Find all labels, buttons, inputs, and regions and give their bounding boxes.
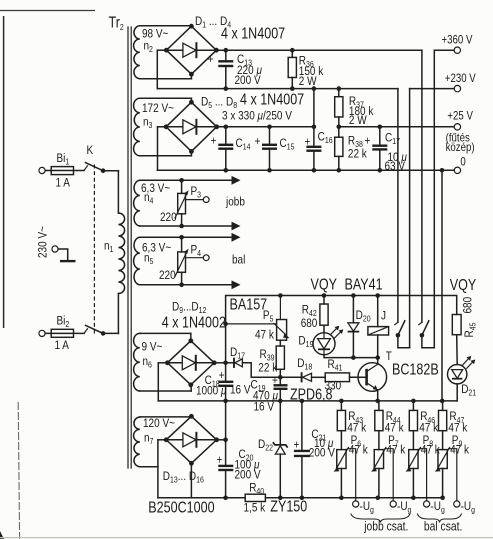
capacitor C14 bbox=[211, 127, 252, 171]
svg-text:R42: R42 bbox=[302, 304, 317, 319]
+230V terminal bbox=[410, 72, 477, 92]
potentiometer P5 47k bbox=[255, 309, 290, 342]
secondary winding n2 98 V~ bbox=[134, 26, 169, 79]
potentiometer P8 47k bbox=[406, 434, 441, 507]
svg-text:Tr2: Tr2 bbox=[109, 13, 124, 32]
resistor R44 47k bbox=[375, 401, 404, 450]
LED D21 VQY bbox=[448, 356, 477, 401]
+12V rail for relay circuit bbox=[226, 296, 457, 363]
heater wire bal top with arrow bbox=[140, 233, 241, 242]
svg-text:+: + bbox=[219, 369, 225, 382]
svg-text:D20: D20 bbox=[356, 309, 372, 324]
capacitor C18 1000u 16V bbox=[196, 363, 251, 401]
svg-text:+25 V: +25 V bbox=[447, 110, 473, 123]
+230V rail wire bbox=[157, 89, 398, 323]
svg-text:+: + bbox=[208, 53, 214, 66]
svg-text:+: + bbox=[365, 135, 371, 148]
diode D17 BA157 bbox=[226, 346, 281, 377]
zener diode D18 ZPD6,8 bbox=[280, 357, 312, 382]
svg-text:-Ug: -Ug bbox=[397, 500, 411, 515]
wire n2 top to bridge1 bbox=[140, 25, 192, 27]
capacitor C21 10u 200V bbox=[294, 401, 336, 498]
svg-text:1 A: 1 A bbox=[56, 177, 71, 190]
wire bridge3 minus to 0 line bbox=[158, 363, 167, 401]
svg-text:230 V~: 230 V~ bbox=[37, 226, 50, 258]
svg-text:BA157: BA157 bbox=[230, 295, 268, 312]
heater wire jobb bottom with arrow bbox=[140, 222, 241, 231]
svg-text:n2: n2 bbox=[144, 40, 153, 55]
svg-text:Bi2: Bi2 bbox=[57, 315, 70, 330]
svg-text:47 k: 47 k bbox=[419, 421, 438, 434]
svg-text:47 k: 47 k bbox=[349, 443, 368, 456]
svg-text:P5: P5 bbox=[263, 309, 274, 324]
relay coil J bbox=[368, 296, 389, 358]
svg-text:jobb csat.: jobb csat. bbox=[363, 521, 408, 534]
svg-text:1,5 k: 1,5 k bbox=[244, 501, 266, 514]
svg-text:VQY: VQY bbox=[311, 275, 338, 292]
mains input 230V~ bbox=[37, 226, 76, 261]
svg-text:220: 220 bbox=[160, 211, 177, 224]
secondary winding n5 6,3 V~ bbox=[134, 237, 172, 284]
BA157 label box (type of D17,D18) bbox=[226, 295, 281, 324]
wire n2 bottom to bridge1 AC bbox=[140, 74, 192, 79]
wire bridge2 plus output bbox=[217, 126, 314, 128]
page fold line bottom-left bbox=[0, 402, 493, 539]
capacitor C17 10u 63V bbox=[365, 127, 407, 173]
svg-text:172 V~: 172 V~ bbox=[142, 102, 174, 115]
wire bridge4 minus down to -150 rail bbox=[190, 463, 192, 498]
svg-text:n1: n1 bbox=[104, 240, 113, 255]
svg-text:R40: R40 bbox=[249, 481, 265, 496]
relay contact sw1 (+230) bbox=[395, 321, 410, 348]
svg-text:2 W: 2 W bbox=[299, 75, 317, 88]
diode D20 BAY41 bbox=[348, 296, 372, 358]
svg-text:n6: n6 bbox=[143, 355, 152, 370]
wire n6 bottom to bridge3 AC bbox=[140, 385, 191, 391]
svg-text:P4: P4 bbox=[191, 244, 202, 259]
svg-text:63 V: 63 V bbox=[385, 160, 406, 173]
switch K lower pole bbox=[84, 325, 103, 333]
svg-text:B250C1000: B250C1000 bbox=[148, 498, 214, 515]
wire n7 bottom to bridge4 AC bbox=[140, 466, 158, 468]
resistor R38 22k bbox=[335, 127, 367, 171]
wire bridge1 minus to +230 rail bbox=[157, 50, 166, 88]
svg-text:-Ug: -Ug bbox=[461, 500, 475, 515]
brace bal csat. bbox=[417, 514, 461, 523]
svg-text:680: 680 bbox=[462, 297, 475, 314]
wire D19 cathode to collector node bbox=[324, 355, 378, 358]
svg-text:+230 V: +230 V bbox=[445, 72, 477, 85]
resistor R36 150k 2W bbox=[288, 50, 323, 88]
svg-text:R45: R45 bbox=[463, 323, 478, 338]
svg-text:680: 680 bbox=[301, 317, 318, 330]
svg-text:47 k: 47 k bbox=[450, 443, 469, 456]
svg-text:3 x 330 μ/250 V: 3 x 330 μ/250 V bbox=[222, 110, 292, 123]
wire n7 top to bridge4 bbox=[140, 416, 192, 418]
wire +230 terminal to relay contact bbox=[409, 89, 411, 348]
svg-text:D22: D22 bbox=[258, 438, 273, 453]
svg-text:C14: C14 bbox=[236, 137, 252, 152]
potentiometer P6 47k bbox=[334, 434, 369, 507]
svg-text:1 A: 1 A bbox=[55, 339, 70, 352]
resistor R45 680 bbox=[452, 297, 477, 365]
svg-text:16 V: 16 V bbox=[230, 384, 251, 397]
svg-text:P3: P3 bbox=[191, 185, 202, 200]
svg-text:D18: D18 bbox=[297, 357, 312, 372]
fuse Bi2 1A bbox=[39, 315, 84, 353]
resistor R37 180k 2W bbox=[335, 89, 374, 128]
capacitor C20 100u 200V bbox=[217, 401, 262, 498]
heater wire bal bottom with arrow bbox=[140, 280, 241, 289]
svg-text:C15: C15 bbox=[280, 137, 295, 152]
svg-text:4 x 1N4007: 4 x 1N4007 bbox=[221, 24, 285, 41]
wire bridge4 left corner down bbox=[158, 440, 166, 498]
svg-text:BAY41: BAY41 bbox=[345, 275, 383, 292]
wire +360 terminal to relay contact bbox=[433, 50, 435, 348]
resistor R43 47k bbox=[337, 401, 366, 450]
svg-text:R39: R39 bbox=[260, 348, 275, 363]
svg-text:1000 μ: 1000 μ bbox=[196, 384, 226, 397]
svg-text:22 k: 22 k bbox=[348, 148, 367, 161]
primary winding n1 bbox=[103, 171, 125, 334]
resistor R46 47k bbox=[409, 401, 438, 450]
svg-text:47 k: 47 k bbox=[448, 421, 467, 434]
svg-text:-Ug: -Ug bbox=[360, 500, 374, 515]
svg-text:120 V~: 120 V~ bbox=[143, 417, 175, 430]
potentiometer P4 220 bbox=[159, 237, 209, 284]
secondary winding n6 9 V~ bbox=[134, 333, 163, 391]
svg-text:+: + bbox=[272, 374, 278, 387]
svg-text:22 k: 22 k bbox=[258, 362, 277, 375]
svg-text:200 V: 200 V bbox=[235, 468, 262, 481]
svg-text:2 W: 2 W bbox=[349, 114, 367, 127]
svg-text:47 k: 47 k bbox=[386, 443, 405, 456]
svg-text:16 V: 16 V bbox=[254, 400, 275, 413]
heater wire jobb top with arrow bbox=[140, 176, 241, 185]
resistor R41 330 bbox=[312, 358, 367, 393]
0V rail bbox=[158, 156, 466, 174]
svg-text:9 V~: 9 V~ bbox=[142, 341, 163, 354]
secondary winding n7 120 V~ bbox=[134, 417, 175, 467]
capacitor C16 and link to +230 rail bbox=[305, 89, 333, 171]
brace jobb csat. bbox=[351, 514, 410, 523]
fuse Bi1 1A bbox=[39, 152, 84, 190]
svg-text:BC182B: BC182B bbox=[392, 360, 439, 377]
+360V terminal bbox=[434, 34, 473, 54]
transformer Tr2 core bbox=[128, 27, 131, 468]
bridge rectifier D9-D12 (4 x 1N4002) bbox=[162, 301, 226, 388]
svg-text:R41: R41 bbox=[328, 358, 343, 373]
svg-text:bal csat.: bal csat. bbox=[424, 521, 462, 534]
page border artifact top-left bbox=[0, 11, 95, 329]
svg-text:n3: n3 bbox=[143, 116, 152, 131]
secondary winding n3 172 V~ bbox=[134, 98, 174, 156]
svg-text:D17: D17 bbox=[230, 346, 245, 361]
svg-text:n7: n7 bbox=[144, 432, 153, 447]
relay contact sw2 (+360) bbox=[419, 321, 435, 348]
svg-text:+360 V: +360 V bbox=[442, 34, 474, 47]
wire n6 top to bridge3 bbox=[140, 333, 191, 340]
capacitor C19 470u 16V bbox=[251, 374, 288, 413]
capacitor C13 220u 200V bbox=[208, 50, 262, 88]
svg-text:+: + bbox=[217, 454, 223, 467]
wire bridge4 plus to 0V node bbox=[217, 439, 226, 441]
svg-text:+: + bbox=[255, 135, 261, 148]
svg-text:220: 220 bbox=[159, 269, 176, 282]
svg-text:0: 0 bbox=[460, 156, 465, 169]
+360V rail wire bbox=[216, 50, 422, 322]
svg-text:200 V: 200 V bbox=[235, 74, 262, 87]
svg-text:VQY: VQY bbox=[450, 276, 477, 293]
switch K mechanical link bbox=[93, 165, 95, 334]
transistor T BC182B bbox=[358, 350, 439, 401]
bridge rectifier D13-D16 B250C1000 bbox=[148, 414, 219, 516]
0V rail of bias section bbox=[158, 400, 457, 402]
svg-text:47 k: 47 k bbox=[255, 329, 274, 342]
-150V rail with R40 in series bbox=[158, 481, 443, 514]
svg-text:+: + bbox=[294, 439, 300, 452]
+25V line (futes kozep) bbox=[339, 110, 475, 155]
wire n3 top to bridge2 bbox=[140, 98, 192, 102]
svg-text:+: + bbox=[211, 135, 217, 148]
svg-text:D5 ... D8: D5 ... D8 bbox=[201, 96, 237, 111]
svg-text:K: K bbox=[87, 144, 94, 157]
svg-text:jobb: jobb bbox=[225, 196, 245, 209]
0V line down to bias section bbox=[441, 170, 443, 401]
svg-text:T: T bbox=[386, 350, 392, 363]
bridge rectifier D1-D4 (4 x 1N4007) bbox=[164, 15, 285, 76]
svg-text:C16: C16 bbox=[318, 131, 333, 146]
potentiometer P9 47k bbox=[435, 434, 470, 507]
svg-text:bal: bal bbox=[232, 254, 245, 267]
svg-text:47 k: 47 k bbox=[385, 421, 404, 434]
resistor R39 22k bbox=[258, 340, 284, 377]
svg-text:D13... D16: D13... D16 bbox=[163, 470, 204, 485]
LED D19 VQY bbox=[298, 326, 343, 355]
wire n3 bottom to bridge2 AC bbox=[140, 151, 192, 155]
wire bridge3 plus output bbox=[214, 362, 225, 364]
svg-text:47 k: 47 k bbox=[347, 421, 366, 434]
potentiometer P7 47k bbox=[371, 434, 406, 507]
svg-text:közép): közép) bbox=[446, 141, 475, 154]
capacitor C15 bbox=[255, 127, 295, 171]
svg-text:D19: D19 bbox=[298, 335, 313, 350]
svg-text:+: + bbox=[305, 136, 311, 149]
svg-text:Bi1: Bi1 bbox=[57, 152, 70, 167]
potentiometer P3 220 bbox=[160, 180, 209, 226]
wire bridge2 minus to 0 rail bbox=[158, 127, 167, 171]
switch K upper pole bbox=[84, 144, 103, 171]
svg-text:J: J bbox=[381, 310, 386, 323]
bridge rectifier D5-D8 (4 x 1N4007) bbox=[164, 90, 305, 154]
resistor R47 47k bbox=[439, 401, 468, 450]
svg-text:D21: D21 bbox=[461, 383, 476, 398]
svg-text:4 x 1N4002: 4 x 1N4002 bbox=[162, 313, 226, 330]
svg-text:4 x 1N4007: 4 x 1N4007 bbox=[240, 90, 304, 107]
resistor R42 680 bbox=[301, 296, 328, 333]
svg-text:-Ug: -Ug bbox=[430, 500, 444, 515]
secondary winding n4 6,3 V~ bbox=[134, 180, 171, 226]
zener diode D22 ZY150 bbox=[258, 401, 288, 498]
svg-text:200 V: 200 V bbox=[309, 447, 336, 460]
